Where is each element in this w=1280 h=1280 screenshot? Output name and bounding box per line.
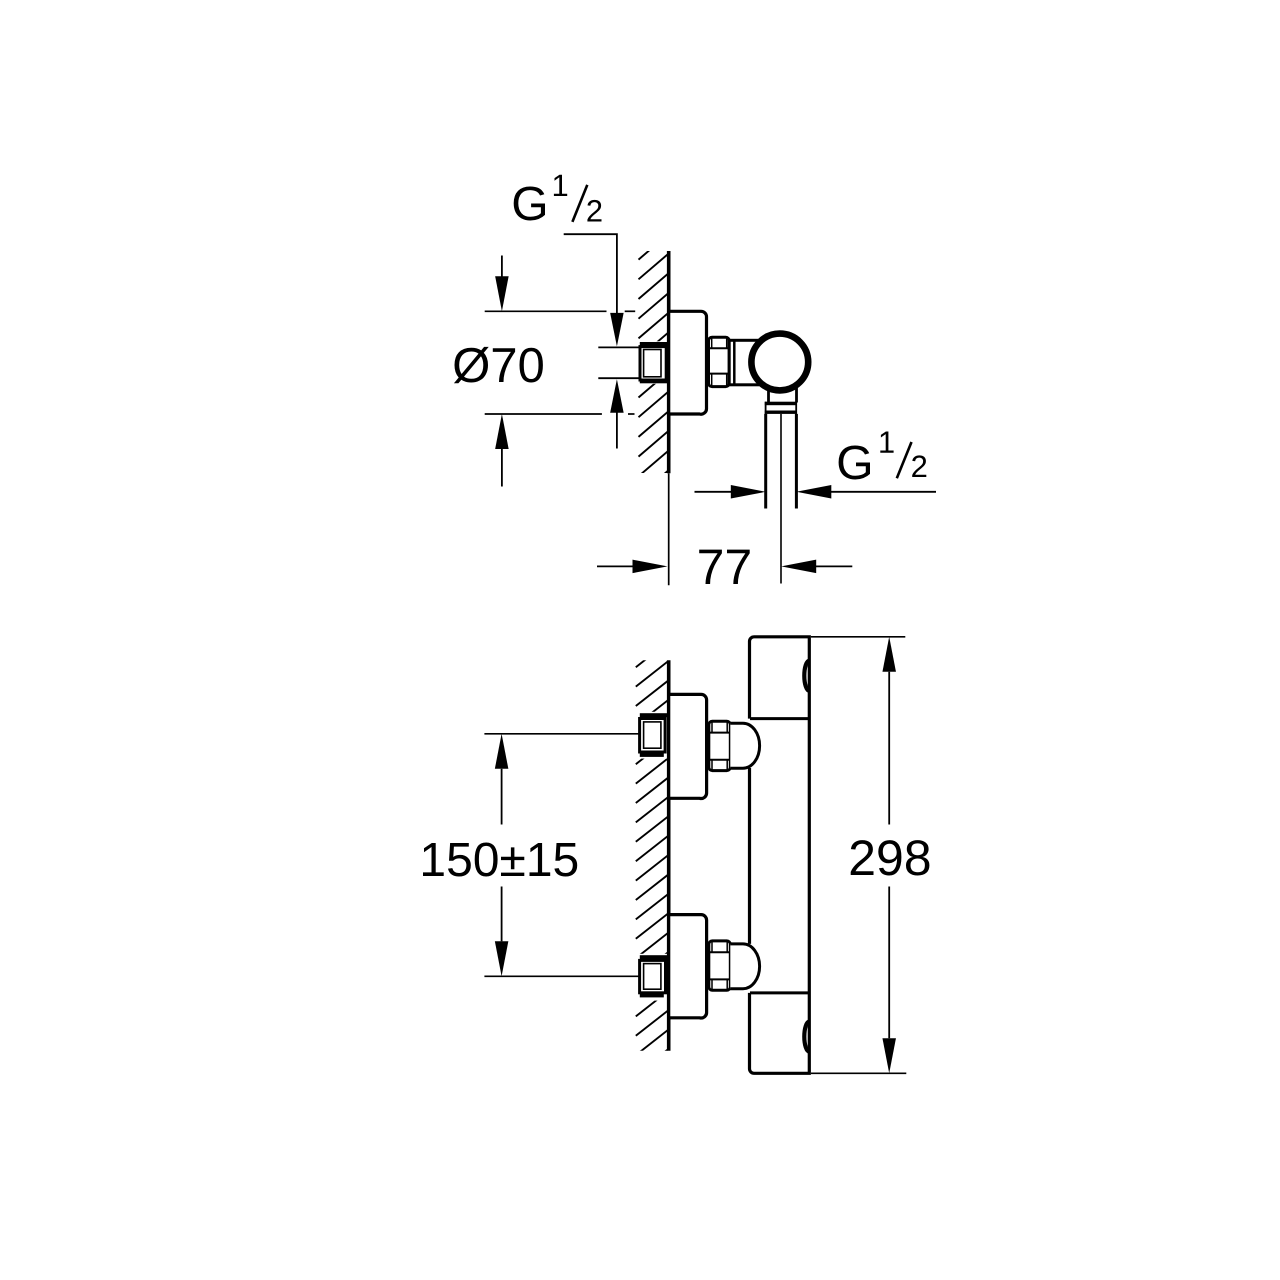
upper dome nut (plan) (730, 723, 759, 768)
extension line 150 (upper) (484, 733, 640, 735)
mixer bar cap joint lines (750, 719, 809, 993)
lower union nut (plan) (709, 941, 731, 990)
leader line from G 1/2 to wall union (564, 234, 624, 448)
wall union socket square (top view) (640, 347, 666, 380)
label G 1/2 (top left) (514, 175, 602, 222)
wall surface line (top view) (667, 251, 671, 473)
mixer bar left edge between inlets (748, 768, 751, 944)
lower knob notch on bar edge (804, 1022, 809, 1052)
upper knob notch on bar edge (804, 661, 809, 691)
wall extension line for 77 dim (668, 473, 670, 585)
wall union flange bars (top view) (640, 342, 668, 383)
lower escutcheon rosette (plan) (669, 915, 707, 1018)
dimension 298 (811, 637, 929, 1074)
wall hatching (top view) (639, 234, 669, 516)
thermostat knob (side view circle) (751, 334, 808, 391)
hatch gap behind wall union (top view) (634, 341, 667, 384)
dimension O70 extension lines (485, 311, 636, 414)
lower dome nut (plan) (730, 944, 759, 989)
lower wall union socket square (640, 960, 666, 992)
label G 1/2 (right, hose thread) (839, 432, 927, 480)
dimension O70 arrows (495, 256, 509, 487)
dimension line G 1/2 (hose) (695, 485, 937, 499)
upper wall union socket square (640, 719, 666, 753)
upper escutcheon rosette (plan) (669, 694, 707, 798)
escutcheon rosette (top view) (669, 311, 707, 414)
valve body (top view) (729, 340, 761, 385)
supply pipe stub lines (top view) (598, 347, 642, 378)
union nut (top view) (709, 337, 730, 386)
mixer bar body (plan) (750, 637, 810, 1074)
wall surface line (bottom view) (667, 660, 671, 1050)
upper wall union flange bars (640, 713, 668, 757)
hose collar (765, 402, 797, 414)
dimension 150+-15 (423, 734, 577, 977)
lower wall union flange bars (640, 955, 668, 997)
extension line 150 (lower) (484, 975, 640, 977)
wall hatching (bottom view) (636, 642, 669, 1094)
hose neck below knob (769, 388, 797, 403)
shower hose (766, 414, 797, 584)
dimension 77 (597, 550, 852, 584)
upper union nut (plan) (709, 721, 731, 770)
hatch gaps behind wall unions (bottom view) (634, 712, 668, 1001)
dimension text O70 (454, 347, 543, 383)
